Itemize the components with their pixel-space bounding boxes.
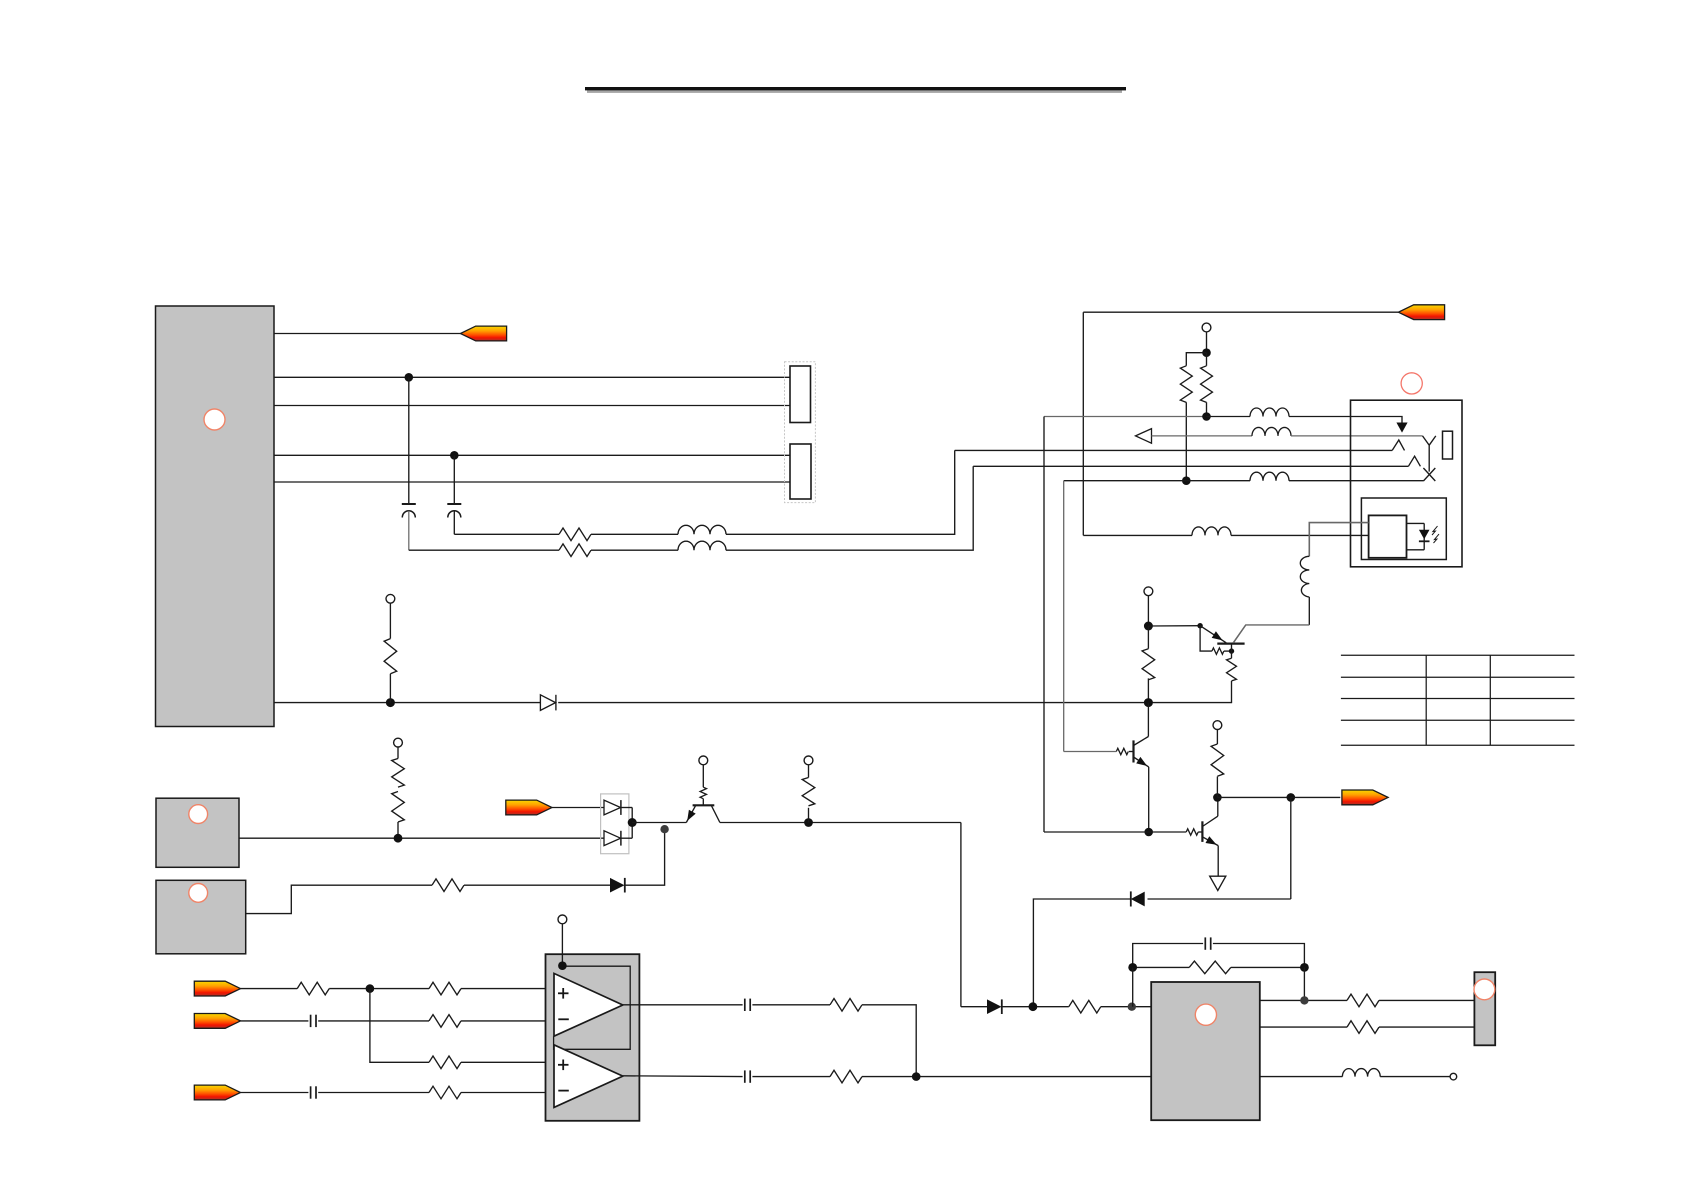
wire R17 to junction [329,988,429,990]
wire R11 to collector node [1216,777,1218,798]
opto body rect [1369,515,1407,557]
small node dot Q1 base [1229,648,1234,653]
inductor L7 (vertical coil) [1300,556,1309,597]
wire U1 pin5 row [274,481,790,483]
wire R5 top [1206,353,1208,366]
table (empty) top right [1341,655,1575,745]
wire U2 pin row [239,837,604,839]
wire L2 to corner then up to jack switch row D [726,466,973,550]
junction row A [1202,412,1211,421]
wire R27 to connector J3 [1379,1026,1474,1028]
wire terminal down to junction [1147,596,1149,626]
resistor R14 (small, Q4 base vertical) [700,787,706,799]
wire Q2 collector up to junction [1147,703,1149,737]
wire R10 to Q3 bar [1198,831,1202,833]
wire R4 bottom long down to row E junction [1185,402,1187,480]
junction on U2 row [394,834,403,843]
resistor R13 (vertical, in series) [392,792,405,823]
junction Q1 emitter node [1144,622,1153,631]
terminal above Q4 [699,756,708,765]
op-amp B plus sign [558,1060,569,1091]
inductor L4 [1250,408,1289,417]
grey wire to opto [1309,523,1368,557]
optocoupler module box [1361,498,1446,560]
capacitor C1 lower lead (grey) [408,511,410,550]
op-amp A plus sign [558,988,569,1019]
op-amp B minus sign [558,1090,569,1092]
inductor L8 [1342,1069,1380,1077]
wire U1 pin3 row [274,405,790,407]
feedback capacitor C7 top wire [1133,944,1203,968]
jack tip lever Y [1392,436,1436,481]
wire op-amp B output to C6 [623,1075,743,1078]
wire D6 to junction [1002,1006,1069,1008]
resistor R1 (vertical) [384,639,397,674]
wire P5 to R17 [241,988,298,990]
LED light squiggles [1432,526,1439,543]
wire junction down to op2 + row [370,989,429,1063]
wire L1 to corner then up to jack switch row C [726,450,955,534]
wire jog to R4 top [1186,353,1206,366]
wire R25 to right junction [1231,966,1305,968]
wire Q1 emitter dot down to base resistor [1200,626,1212,651]
wire base node up to bar [1231,644,1233,652]
arrowhead down at jack tip contact [1396,423,1407,433]
diode D5 (filled, points right) [610,878,625,893]
wire L4 into jack row A [1289,417,1402,424]
transistor Q2 base bar [1132,740,1134,762]
resistor R20 [429,1056,461,1069]
title underline [585,87,1126,90]
wire R15 to junction [808,808,810,823]
IC U5 block [1151,982,1260,1120]
feedback cap right wire [1213,944,1305,968]
dangling node dot [660,825,668,833]
wire R7 down to long row [1231,681,1233,703]
small node dot Q1 emitter [1197,623,1202,628]
open terminal output3 [1450,1073,1457,1080]
wire terminal to junction [1206,332,1208,353]
wire long row right of diode D1 [558,702,1232,704]
resistor R23 [830,1070,862,1083]
junction of parallel resistors top [1202,348,1211,357]
resistor R16 [432,879,464,892]
dark junction at U5 input [1128,1003,1136,1011]
wire diode row right part [1148,898,1291,900]
wire Q3 base row [1044,831,1186,833]
wire U1 pin4 row [274,454,790,456]
lower chain wire C1 to R3 [409,549,559,551]
wire terminal to R15 [808,765,810,778]
inductor L1 [678,525,726,534]
wire R21 to op-amp2 - [461,1092,555,1094]
wire vertical down from P2 wire [1082,312,1084,535]
LED loop wires [1407,523,1425,549]
resistor R27 [1347,1021,1379,1034]
junction feedback left [1128,963,1137,972]
wire row E junction to L6 [1186,480,1250,482]
wire P2 to left corner [1083,311,1398,313]
wire L8 to terminal [1380,1076,1450,1078]
op-amp A minus sign [558,1018,569,1020]
wire R22 to corner down to op-amp B row [862,1005,916,1077]
diode D4b [604,831,621,846]
wire junction to Q1 emitter dot [1148,625,1200,627]
port P2 (left-pointing, top right) [1398,305,1444,320]
op-amp block U4 [546,954,640,1121]
transistor Q3 collector lead [1202,816,1217,826]
connector J1 outer dashed frame [785,362,816,503]
wire junction to P4 [1291,796,1341,798]
port P1 (left-pointing) [460,326,506,341]
jack switch contact D [1408,456,1420,466]
resistor R26 [1347,994,1379,1007]
wire R1 to junction [389,674,391,703]
inductor L5 [1252,427,1291,436]
wire op-amp A output to C5 [623,1004,743,1006]
diode D6 (filled, points right) [987,999,1002,1014]
port P5 (right-pointing) [194,981,240,996]
upper chain wire C2 to R2 [454,533,559,535]
wire corner to L3 [1083,534,1192,536]
resistor R24 [1069,1000,1101,1013]
wire Q3 collector up to junction [1217,797,1219,816]
wire Q2 emitter down to base row junction [1148,767,1150,832]
wire row C into jack [955,449,1392,451]
wire U5 output3 to L8 [1260,1076,1343,1078]
wire corner down to IC input row [960,823,962,1007]
wire row A left (grey) to corner [1044,416,1207,418]
junction long row at Q2 column [1144,698,1153,707]
wire R14 bottom to bar [702,799,704,806]
wire R16 to D5 [464,884,610,886]
wire C5 to R22 [752,1004,830,1006]
junction before port P4 [1287,793,1296,802]
connector J1 pin block upper [790,366,811,423]
resistor R5 (vertical) [1201,366,1213,403]
capacitor C2 lead from pin4 junction [453,455,455,503]
port P4 (right-pointing) [1342,790,1388,805]
wire P7 to C4 [241,1092,309,1094]
resistor R3 [559,544,591,557]
wire R23 to IC U5 input [862,1076,1151,1078]
inductor L2 [678,541,726,550]
op-amp B triangle [554,1045,623,1108]
wire R6 to base node [1224,650,1232,652]
wire P4 junction down to diode row [1290,797,1292,899]
diode D4a [604,800,621,815]
transistor Q2 (NPN) collector lead [1134,737,1149,746]
junction pull-up R15 [804,818,813,827]
wire terminal to R1 [389,603,391,638]
terminal above R12 [394,738,403,747]
wire R5 bottom to row A junction [1206,402,1208,416]
connector J3 [1474,972,1495,1045]
grey wire to Q1 collector [1233,625,1309,643]
terminal above R1 [386,594,395,603]
wire corner to diode D6 [961,1006,987,1008]
inductor L3 [1192,527,1231,536]
diode pair frame [601,794,629,854]
transistor Q4 collector lead [712,806,720,823]
wire row B (grey) to L5 [1152,435,1253,437]
wire C3 to R19 [318,1020,429,1022]
resistor R2 [559,528,591,541]
terminal above Q1 node [1144,587,1153,596]
wire U3 pin jog [246,885,432,913]
grey vertical down to Q2 base [1063,481,1065,752]
capacitor C5 [745,999,750,1011]
junction on pin6 row [386,698,395,707]
junction on pin4 row [450,451,459,460]
wires joining diode cathodes [621,808,632,839]
transistor Q2 emitter lead with arrow [1134,757,1149,767]
transistor Q3 emitter lead with arrow [1202,837,1218,846]
wire collector node to P4 junction [1217,796,1290,798]
transistor Q1 base bar [1217,642,1244,644]
connector J1 pin block lower [790,444,811,499]
wire L6 into jack row E [1289,480,1423,482]
inductor L6 [1250,472,1289,481]
junction on pin2 row [405,373,414,382]
wire R24 to U5 [1101,1006,1151,1008]
wire R26 to connector J3 [1379,999,1474,1001]
wire base node down to R7 [1231,651,1233,658]
junction row E (bottom of R4) [1182,476,1191,485]
wire R14 to terminal [702,765,704,787]
resistor R10 (small, Q3 base) [1186,829,1198,835]
wire R8 to long row junction [1147,678,1149,702]
LED D2 [1419,530,1430,540]
wire diode row left part to corner [1033,899,1130,1007]
wire R18 to op-amp + [461,988,555,990]
junction at block entry [558,961,567,970]
terminal above R11 [1213,721,1222,730]
wire vertical corner down to Q3 base row [1043,417,1045,833]
jack lower X contact [1423,468,1435,481]
wire row D into jack [973,465,1408,467]
capacitor C1 lead from pin2 junction [408,377,410,503]
wire P6 to C3 [241,1020,309,1022]
resistor R6 (small, Q1 E-B) [1212,648,1224,654]
resistor R25 [1189,961,1231,974]
junction input divider [366,984,375,993]
junction IC input row [1029,1002,1038,1011]
wire feedback right down to output1 [1303,967,1305,1000]
port P6 (right-pointing) [194,1014,240,1029]
wire Q3 emitter to ground [1217,846,1219,877]
wire Q1 node down to R8 [1147,626,1149,649]
capacitor C6 [745,1070,750,1082]
wire terminal to R11 [1216,730,1218,745]
terminal above op-amp block [558,915,567,924]
wire R3 to L2 [591,549,678,551]
jack sleeve rectangle [1443,431,1453,459]
capacitor C2 lower lead [453,511,455,535]
capacitor C4 [311,1086,316,1098]
capacitor C2 [447,504,461,518]
junction op outputs [912,1072,921,1081]
wire junction to L4 [1207,416,1251,418]
junction Q3 collector node [1213,793,1222,802]
resistor R8 (vertical) [1142,649,1155,680]
IC U1 main block [156,306,275,727]
wire L5 into jack row B (grey) [1291,435,1423,437]
wire U5 output2 [1260,1026,1347,1028]
wire D5 to dangling node [625,829,665,885]
wire junction to Q4 emitter [632,822,686,824]
wire U1 pin1 to port P1 [274,333,460,335]
capacitor C3 [311,1015,316,1027]
resistor R21 [429,1086,461,1099]
resistor R7 (vertical) [1227,658,1237,681]
wire R2 to L1 [591,533,678,535]
wire P3 to diode pair [552,807,604,809]
junction Q3 base row [1144,828,1153,837]
wire R13 to junction [397,822,399,838]
terminal above R15 [804,756,813,765]
transistor Q4 base bar [693,804,715,806]
ground symbol [1210,876,1226,890]
jack J2 box [1351,400,1463,567]
wire U1 pin6 long row left part [274,702,540,704]
port P7 (right-pointing) [194,1085,240,1100]
resistor R22 [830,999,862,1012]
wire Q4 collector to pull-up junction and corner [720,822,961,824]
wire R19 to op-amp - [461,1020,555,1022]
resistor R11 (vertical) [1211,744,1224,776]
capacitor C7 [1205,937,1210,949]
transistor Q4 (PNP rotated) emitter lead with arrow [686,806,695,823]
wire U5 output1 [1260,999,1347,1001]
wire C6 to R23 [752,1076,830,1078]
junction feedback right [1300,963,1309,972]
red annotation circle [1401,373,1422,394]
wire grey vertical corner to Q2 base resistor [1064,751,1117,753]
transistor Q1 (PNP) emitter lead with arrow [1200,626,1226,643]
wire L3 to optocoupler [1231,534,1369,536]
wire coil down to Q1 collector wire [1308,597,1310,625]
port P3 (right-pointing) [506,800,552,815]
wire R20 to op-amp2 + [461,1061,555,1063]
wire terminal down to block [561,924,563,966]
resistor R4 (vertical) [1180,366,1192,403]
resistor R18 [429,982,461,995]
resistor R15 (vertical) [802,778,815,806]
terminal above R4 R5 [1202,323,1211,332]
resistor R17 [297,982,329,995]
dark junction output1 [1300,996,1308,1004]
wire Q2 base resistor to bar [1129,751,1134,753]
diode D1 on long row [540,695,556,711]
wire terminal to R12 [397,747,399,759]
IC U2 block [156,798,239,867]
direction arrow (open, left) on row B [1136,429,1152,444]
op-amp A triangle [554,973,623,1036]
capacitor C1 [402,504,416,518]
junction diode pair output [628,818,637,827]
diode D3 (points left) [1131,892,1145,907]
resistor R9 (small, Q2 base) [1116,748,1128,754]
resistor R12 (vertical) [392,759,405,788]
feedback resistor R25 left wire [1133,966,1190,968]
wire feedback left down to input [1132,967,1134,1006]
wire C4 to R21 [318,1092,429,1094]
transistor Q3 base bar [1201,821,1203,842]
jack switch contact C [1392,440,1404,450]
title underline shadow [587,91,1122,93]
inner frame around op-amp A [554,966,631,1049]
wire row E left to corner grey vertical [1064,480,1187,482]
resistor R19 [429,1015,461,1028]
wire U1 pin2 row [274,376,790,378]
IC U3 block [156,880,246,954]
transistor Q1 collector lead [1233,625,1246,643]
